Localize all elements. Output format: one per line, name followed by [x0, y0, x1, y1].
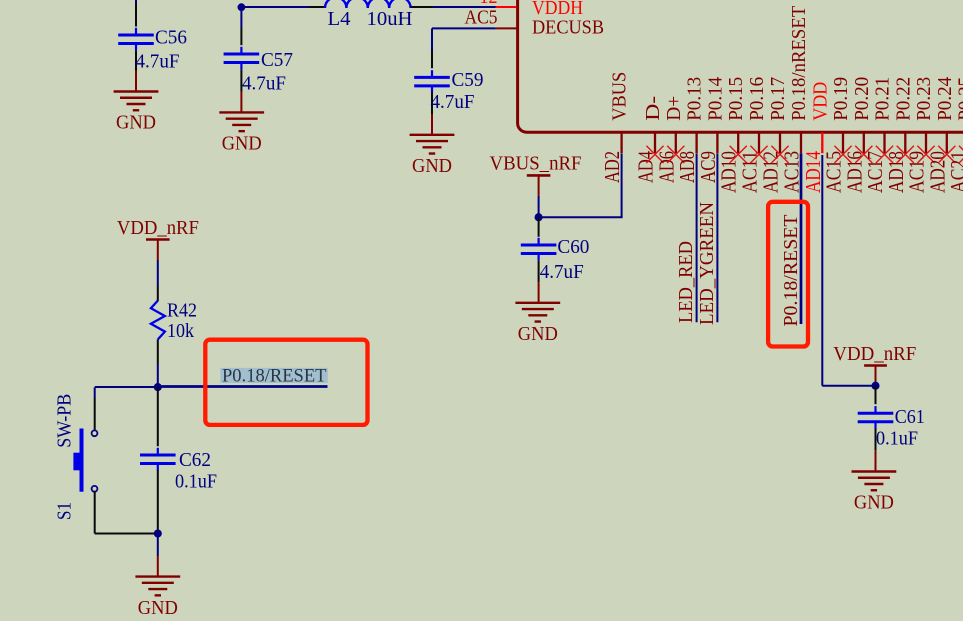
- svg-text:AC5: AC5: [465, 7, 498, 29]
- svg-text:VBUS_nRF: VBUS_nRF: [490, 153, 582, 175]
- svg-text:P0.21: P0.21: [872, 77, 894, 121]
- svg-text:C62: C62: [179, 449, 211, 471]
- svg-text:0.1uF: 0.1uF: [175, 471, 217, 493]
- svg-text:VDD: VDD: [809, 82, 831, 121]
- svg-text:C61: C61: [895, 406, 925, 428]
- svg-text:4.7uF: 4.7uF: [136, 51, 180, 73]
- svg-text:LED_RED: LED_RED: [675, 241, 697, 323]
- svg-text:C57: C57: [261, 49, 293, 71]
- svg-text:D+: D+: [663, 96, 685, 121]
- svg-text:4.7uF: 4.7uF: [242, 73, 286, 95]
- svg-text:R42: R42: [167, 300, 197, 322]
- svg-text:10uH: 10uH: [367, 8, 413, 30]
- svg-text:VDD_nRF: VDD_nRF: [833, 343, 916, 365]
- svg-text:GND: GND: [518, 323, 558, 345]
- svg-text:P0.15: P0.15: [725, 77, 747, 121]
- svg-text:P0.16: P0.16: [746, 77, 768, 121]
- svg-text:C60: C60: [557, 236, 589, 258]
- svg-text:VDD_nRF: VDD_nRF: [117, 217, 199, 239]
- svg-text:GND: GND: [138, 597, 178, 619]
- svg-text:S1: S1: [54, 502, 76, 520]
- svg-text:10k: 10k: [167, 320, 194, 342]
- svg-text:P0.13: P0.13: [684, 77, 706, 121]
- svg-text:4.7uF: 4.7uF: [540, 261, 584, 283]
- svg-text:GND: GND: [222, 133, 262, 155]
- svg-text:P0.22: P0.22: [892, 77, 914, 121]
- svg-text:SW-PB: SW-PB: [54, 394, 76, 448]
- svg-text:D-: D-: [642, 96, 664, 121]
- svg-text:C56: C56: [155, 26, 187, 48]
- svg-text:P0.23: P0.23: [913, 77, 935, 121]
- svg-text:DECUSB: DECUSB: [532, 17, 604, 39]
- svg-text:P0.18/RESET: P0.18/RESET: [780, 215, 802, 327]
- svg-text:GND: GND: [854, 492, 894, 514]
- svg-text:C59: C59: [452, 69, 484, 91]
- svg-text:AD2: AD2: [600, 151, 624, 183]
- svg-text:GND: GND: [412, 155, 452, 177]
- svg-text:4.7uF: 4.7uF: [431, 91, 475, 113]
- svg-text:0.1uF: 0.1uF: [876, 428, 918, 450]
- svg-text:P0.18/RESET: P0.18/RESET: [222, 366, 327, 386]
- svg-text:AC21: AC21: [946, 151, 963, 193]
- svg-text:GND: GND: [116, 112, 156, 134]
- svg-text:P0.20: P0.20: [851, 77, 873, 121]
- svg-text:P0.25: P0.25: [955, 77, 963, 121]
- svg-text:L4: L4: [328, 8, 351, 30]
- svg-text:VBUS: VBUS: [609, 72, 631, 121]
- svg-text:P0.24: P0.24: [934, 77, 956, 121]
- svg-text:P0.17: P0.17: [767, 77, 789, 121]
- svg-text:P0.19: P0.19: [830, 77, 852, 121]
- svg-text:P0.18/nRESET: P0.18/nRESET: [788, 6, 810, 121]
- svg-text:P0.14: P0.14: [704, 77, 726, 121]
- svg-text:LED_YGREEN: LED_YGREEN: [696, 202, 718, 325]
